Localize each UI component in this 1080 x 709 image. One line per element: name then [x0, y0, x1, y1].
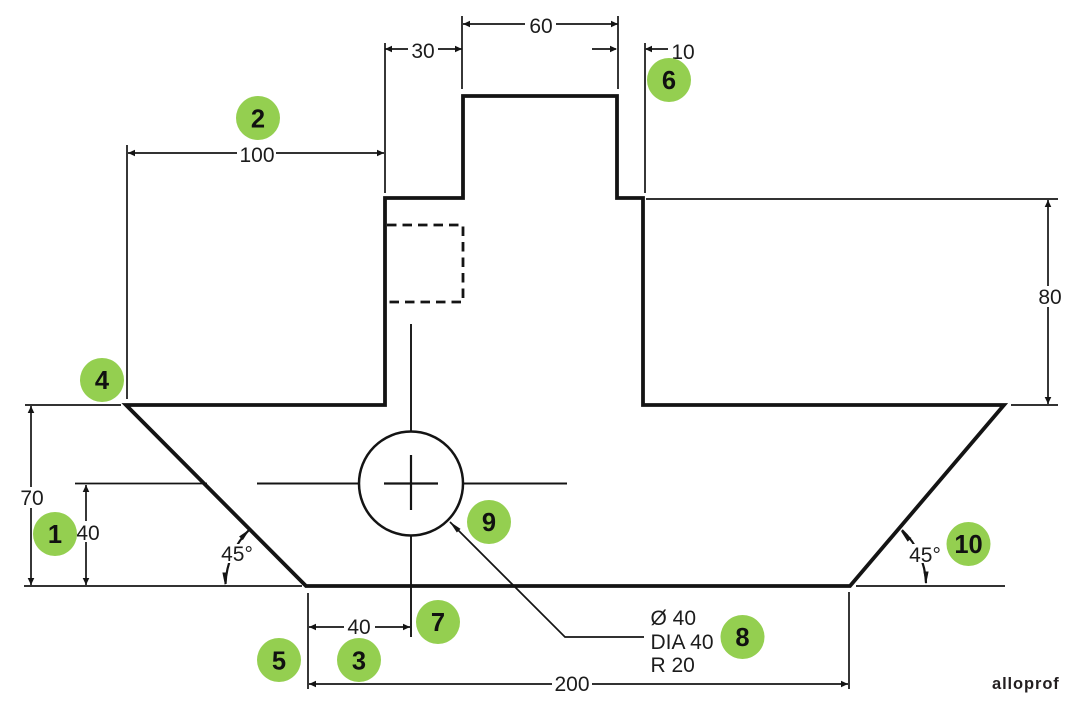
- dimension 40 bottom line: [309, 626, 410, 628]
- marker 5: [257, 638, 301, 682]
- part outline: [126, 96, 1004, 586]
- svg-text:1: 1: [48, 521, 62, 549]
- svg-text:Ø 40: Ø 40: [651, 607, 697, 630]
- svg-text:3: 3: [352, 648, 366, 676]
- dimension 10 arrows: [592, 48, 616, 50]
- centerline above circle: [410, 324, 412, 431]
- marker 1: [33, 512, 77, 556]
- baseline left thin: [24, 585, 302, 587]
- dimension 200 line: [309, 683, 848, 685]
- extension line x849 (200 dim): [848, 592, 850, 689]
- marker 10: [947, 522, 991, 566]
- dimension 100 line: [128, 152, 384, 154]
- svg-text:60: 60: [529, 15, 552, 38]
- crosshair vertical: [410, 455, 412, 510]
- svg-text:40: 40: [76, 522, 99, 545]
- extension line left x127 (100 dim): [126, 145, 128, 399]
- crosshair horizontal: [384, 482, 438, 484]
- leader line to hole: [450, 522, 644, 637]
- dimension 80 line: [1047, 200, 1049, 404]
- svg-text:4: 4: [95, 367, 110, 395]
- svg-text:80: 80: [1038, 286, 1061, 309]
- svg-text:9: 9: [482, 509, 496, 537]
- dimension 30 line: [385, 48, 462, 50]
- extension line x308 (40/200 dims): [307, 593, 309, 689]
- marker 7: [416, 600, 460, 644]
- marker 4: [80, 358, 124, 402]
- extension line x385 (30 dim): [384, 43, 386, 193]
- dimension 70 line: [30, 406, 32, 585]
- extension line x618 (60 dim): [617, 16, 619, 89]
- svg-text:200: 200: [554, 673, 589, 696]
- centerline right of circle: [464, 483, 567, 485]
- hole circle: [359, 432, 463, 536]
- extension line x462 (60/30 dim): [461, 16, 463, 89]
- centerline left of circle: [257, 483, 359, 485]
- marker 3: [337, 638, 381, 682]
- svg-text:100: 100: [239, 144, 274, 167]
- 45 degree arc left: [226, 529, 250, 584]
- baseline right thin: [856, 585, 1005, 587]
- 45 degree arc right: [902, 530, 926, 583]
- dimension 40 left line: [85, 485, 87, 585]
- dimension 60 line: [463, 23, 618, 25]
- svg-text:2: 2: [251, 106, 265, 134]
- marker 6: [647, 58, 691, 102]
- svg-text:40: 40: [347, 616, 370, 639]
- svg-text:8: 8: [735, 624, 749, 652]
- svg-text:45°: 45°: [221, 543, 253, 566]
- centerline below circle: [410, 536, 412, 637]
- svg-text:R 20: R 20: [651, 654, 695, 677]
- svg-text:45°: 45°: [909, 544, 941, 567]
- svg-text:10: 10: [954, 531, 982, 559]
- extension line y199 (80 dim top): [646, 198, 1058, 200]
- hidden-feature dashed rectangle: [387, 225, 463, 302]
- svg-text:5: 5: [272, 648, 286, 676]
- svg-text:7: 7: [431, 609, 445, 637]
- extension line y405 left (70 dim top): [25, 404, 121, 406]
- extension line x645 (10 dim): [644, 43, 646, 193]
- svg-text:6: 6: [662, 67, 676, 95]
- marker 2: [236, 96, 280, 140]
- svg-text:alloprof: alloprof: [992, 675, 1060, 693]
- svg-text:30: 30: [411, 40, 434, 63]
- extension line y405 right (80 dim bottom): [1011, 404, 1058, 406]
- extension line y483 (40 dim top): [75, 483, 207, 485]
- marker 9: [467, 500, 511, 544]
- svg-text:DIA 40: DIA 40: [651, 631, 714, 654]
- svg-text:70: 70: [20, 487, 43, 510]
- marker 8: [721, 615, 765, 659]
